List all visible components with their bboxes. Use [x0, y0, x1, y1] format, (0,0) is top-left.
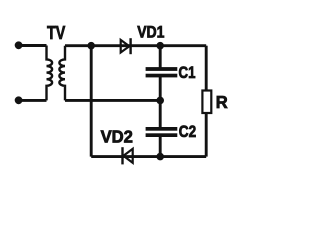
svg-text:C2: C2: [179, 123, 196, 142]
svg-text:TV: TV: [47, 22, 65, 43]
svg-text:VD2: VD2: [101, 127, 133, 146]
svg-text:VD1: VD1: [137, 23, 165, 41]
svg-text:C1: C1: [179, 64, 196, 83]
svg-text:R: R: [216, 91, 228, 112]
